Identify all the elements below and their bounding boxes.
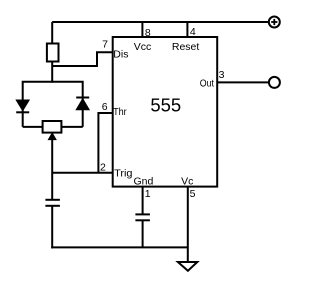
svg-text:3: 3 bbox=[219, 69, 225, 81]
svg-text:Dis: Dis bbox=[113, 48, 128, 60]
supply terminal + bbox=[269, 17, 280, 28]
wire bottom rail bbox=[51, 246, 188, 248]
U1 label 555 bbox=[150, 95, 181, 116]
pin label Vc bbox=[181, 175, 193, 187]
ground bbox=[178, 262, 197, 271]
wire Trig branch to pin 2 bbox=[52, 172, 112, 174]
svg-text:4: 4 bbox=[190, 26, 196, 38]
wire Dis jog to pin 7 bbox=[52, 52, 112, 66]
pin number 7 bbox=[102, 39, 108, 51]
svg-text:555: 555 bbox=[150, 95, 181, 116]
svg-text:Trig: Trig bbox=[114, 167, 133, 179]
wire from R1 down to diode network bbox=[51, 62, 53, 83]
wire pin 3 Out bbox=[217, 81, 269, 83]
potentiometer R2 wiper arrow bbox=[48, 133, 56, 140]
svg-text:5: 5 bbox=[190, 188, 196, 200]
pin label Gnd bbox=[134, 175, 154, 187]
svg-text:Vcc: Vcc bbox=[134, 41, 152, 53]
wire diode loop bottom rail bbox=[23, 126, 83, 128]
wire wiper down to C1 bbox=[51, 138, 53, 200]
svg-text:1: 1 bbox=[145, 188, 151, 200]
wire pin 1 stub down to C2 bbox=[142, 187, 144, 215]
svg-text:6: 6 bbox=[102, 101, 108, 113]
svg-text:2: 2 bbox=[100, 161, 106, 173]
wire diode loop frame bbox=[23, 82, 83, 127]
pin number 2 bbox=[100, 161, 106, 173]
pin number 1 bbox=[145, 188, 151, 200]
svg-text:Gnd: Gnd bbox=[134, 175, 154, 187]
pin number 3 bbox=[219, 69, 225, 81]
wire pin 5 stub down to ground bbox=[187, 187, 189, 262]
svg-text:Vc: Vc bbox=[181, 175, 193, 187]
pin label Thr bbox=[113, 106, 127, 118]
resistor R1 bbox=[47, 44, 59, 62]
capacitor C1 bbox=[45, 200, 60, 206]
pin number 4 bbox=[190, 26, 196, 38]
svg-text:Out: Out bbox=[200, 77, 214, 89]
op-amp U1 555 body bbox=[113, 37, 218, 187]
pin number 5 bbox=[190, 188, 196, 200]
wire C1 down to bottom rail bbox=[51, 206, 53, 249]
pin label Vcc bbox=[134, 41, 152, 53]
wire pin 8 stub bbox=[141, 22, 143, 37]
diode D2 bbox=[76, 98, 89, 110]
wire pin 4 stub bbox=[186, 22, 188, 37]
output terminal bbox=[269, 77, 280, 88]
potentiometer R2 body bbox=[43, 121, 62, 133]
wire C2 down to bottom rail bbox=[142, 220, 144, 247]
pin label Out bbox=[200, 77, 214, 89]
wire from top rail down to R1 bbox=[51, 22, 53, 44]
capacitor C2 bbox=[135, 214, 150, 220]
pin number 6 bbox=[102, 101, 108, 113]
pin label Dis bbox=[113, 48, 128, 60]
pin label Reset bbox=[172, 41, 200, 53]
diode D1 bbox=[16, 100, 29, 112]
pin label Trig bbox=[114, 167, 133, 179]
wire top rail bbox=[52, 21, 269, 23]
svg-text:7: 7 bbox=[102, 39, 108, 51]
svg-text:Reset: Reset bbox=[172, 41, 200, 53]
svg-text:Thr: Thr bbox=[113, 106, 127, 118]
wire Thr jog to pin 6 bbox=[98, 113, 112, 173]
svg-text:8: 8 bbox=[145, 27, 151, 39]
pin number 8 bbox=[145, 27, 151, 39]
